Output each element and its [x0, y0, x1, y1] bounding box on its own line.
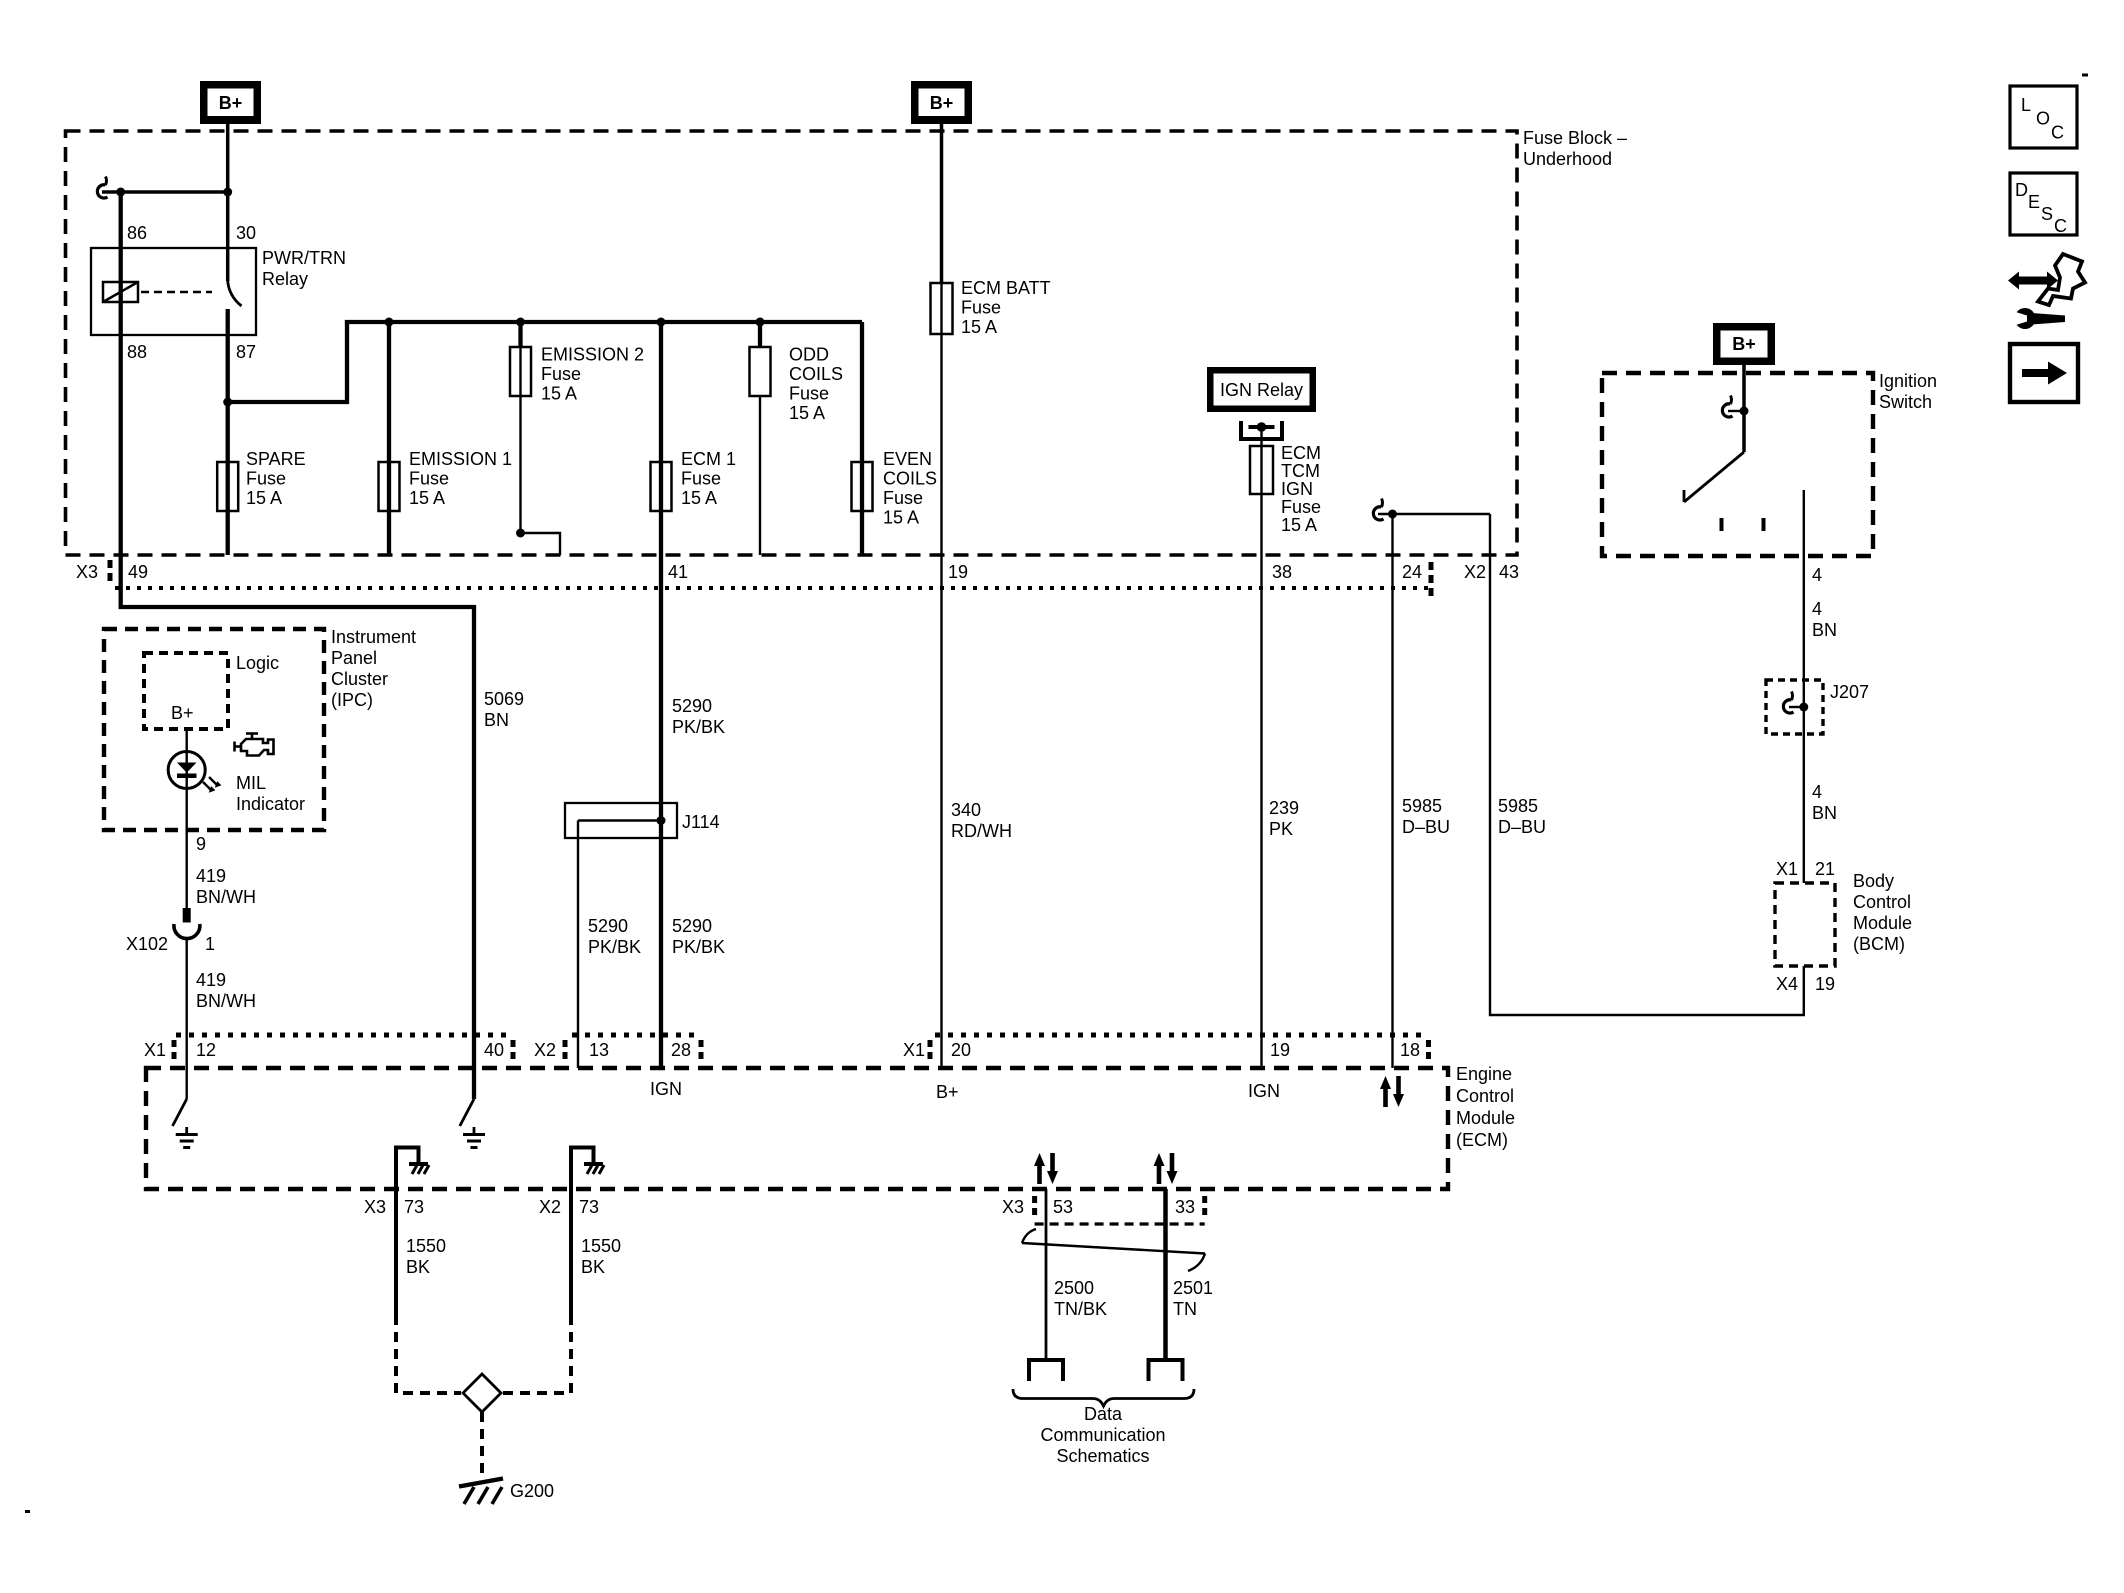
svg-text:Fuse: Fuse: [961, 298, 1001, 318]
svg-text:G200: G200: [510, 1481, 554, 1501]
svg-text:ECM 1: ECM 1: [681, 449, 736, 469]
svg-text:BN/WH: BN/WH: [196, 887, 256, 907]
svg-text:49: 49: [128, 562, 148, 582]
svg-text:5069: 5069: [484, 689, 524, 709]
svg-text:21: 21: [1815, 859, 1835, 879]
svg-text:38: 38: [1272, 562, 1292, 582]
svg-text:D–BU: D–BU: [1498, 817, 1546, 837]
svg-text:5985: 5985: [1402, 796, 1442, 816]
svg-text:5290: 5290: [672, 696, 712, 716]
inline connector X102 socket: [174, 924, 200, 939]
svg-text:239: 239: [1269, 798, 1299, 818]
svg-text:X3: X3: [364, 1197, 386, 1217]
svg-text:Logic: Logic: [236, 653, 279, 673]
svg-text:15 A: 15 A: [246, 488, 282, 508]
svg-text:RD/WH: RD/WH: [951, 821, 1012, 841]
wire: EMISSION 2 branch lower with jog: [521, 347, 561, 555]
wire: EMISSION 1 branch: [387, 322, 391, 555]
tiny page mark bottom left: [25, 1510, 30, 1513]
svg-text:D–BU: D–BU: [1402, 817, 1450, 837]
svg-text:73: 73: [579, 1197, 599, 1217]
svg-text:13: 13: [589, 1040, 609, 1060]
svg-text:BK: BK: [581, 1257, 605, 1277]
svg-text:15 A: 15 A: [541, 384, 577, 404]
twisted pair crossover: [1022, 1243, 1205, 1254]
svg-text:C: C: [2051, 123, 2064, 143]
svg-text:Fuse: Fuse: [883, 488, 923, 508]
connector hook in ignition switch: [1722, 396, 1732, 418]
svg-text:Schematics: Schematics: [1056, 1446, 1149, 1466]
svg-text:PWR/TRN: PWR/TRN: [262, 248, 346, 268]
fuse ECM TCM IGN 15 A: [1250, 446, 1273, 494]
svg-text:X3: X3: [76, 562, 98, 582]
wire: relay pin 87 down to splice: [226, 309, 230, 402]
wire: EVEN COILS branch: [860, 322, 864, 555]
svg-text:B+: B+: [1732, 334, 1756, 354]
fuse ECM 1 15 A: [651, 462, 672, 511]
wire: ECM 1 fuse branch down to ECM pin 28: [659, 322, 663, 1068]
splice pack diamond: [463, 1374, 501, 1412]
svg-text:PK: PK: [1269, 819, 1293, 839]
wire: ODD COILS branch upper: [758, 322, 762, 347]
relay PWR/TRN box: [91, 248, 256, 335]
wire: 2501 TN serial data: [1163, 1189, 1168, 1358]
serial data arrows at ECM pin 18: [1380, 1076, 1404, 1107]
inline connector X102 pin: [183, 908, 191, 923]
svg-text:2500: 2500: [1054, 1278, 1094, 1298]
svg-text:Data: Data: [1084, 1404, 1123, 1424]
wire: 2500 TN/BK serial data: [1045, 1189, 1048, 1358]
svg-text:Module: Module: [1853, 913, 1912, 933]
svg-text:15 A: 15 A: [1281, 515, 1317, 535]
connector hook in J207: [1783, 692, 1793, 714]
svg-text:Fuse: Fuse: [1281, 497, 1321, 517]
svg-text:B+: B+: [219, 93, 243, 113]
svg-text:15 A: 15 A: [789, 403, 825, 423]
MIL engine icon: [235, 734, 274, 756]
legend LOC box: [2010, 86, 2077, 148]
svg-text:BN: BN: [1812, 803, 1837, 823]
svg-text:X2: X2: [1464, 562, 1486, 582]
svg-text:87: 87: [236, 342, 256, 362]
svg-text:O: O: [2036, 109, 2050, 129]
data terminal left: [1029, 1360, 1063, 1381]
relay coil: [103, 282, 138, 302]
svg-text:Fuse: Fuse: [789, 384, 829, 404]
svg-text:Fuse: Fuse: [409, 469, 449, 489]
svg-text:88: 88: [127, 342, 147, 362]
svg-text:TN/BK: TN/BK: [1054, 1299, 1107, 1319]
ECM internal ground at pin 12: [176, 1127, 198, 1148]
junction dot J114: [657, 816, 666, 825]
svg-text:IGN Relay: IGN Relay: [1220, 380, 1303, 400]
fuse ECM BATT 15 A: [931, 283, 953, 334]
svg-text:Underhood: Underhood: [1523, 149, 1612, 169]
chassis ground symbol X2-73: [584, 1164, 604, 1174]
power symbol B+ (ignition switch): [1713, 323, 1775, 365]
svg-text:Relay: Relay: [262, 269, 308, 289]
svg-text:X1: X1: [903, 1040, 925, 1060]
svg-text:340: 340: [951, 800, 981, 820]
svg-text:Ignition: Ignition: [1879, 371, 1937, 391]
svg-text:IGN: IGN: [650, 1079, 682, 1099]
svg-text:TCM: TCM: [1281, 461, 1320, 481]
ECM data connector separators: [1032, 1196, 1037, 1218]
wire: splice to fuse bus riser: [228, 324, 347, 402]
ECM connector face dotted band X1: [176, 1033, 513, 1038]
svg-text:33: 33: [1175, 1197, 1195, 1217]
svg-text:15 A: 15 A: [961, 317, 997, 337]
ignition switch blade: [1684, 452, 1744, 502]
svg-text:SPARE: SPARE: [246, 449, 306, 469]
svg-text:Control: Control: [1853, 892, 1911, 912]
svg-text:Module: Module: [1456, 1108, 1515, 1128]
svg-text:BN: BN: [1812, 620, 1837, 640]
wire: B+ down to relay pin 30: [226, 124, 230, 281]
power symbol B+ (feed to ECM BATT fuse): [911, 81, 972, 124]
svg-text:15 A: 15 A: [409, 488, 445, 508]
svg-text:S: S: [2041, 204, 2053, 224]
svg-text:30: 30: [236, 223, 256, 243]
junction dot on B+ drop: [223, 188, 232, 197]
fuse ODD COILS 15 A: [750, 347, 771, 396]
ignition switch dashed box: [1602, 373, 1873, 556]
ECM pin 40 internal switch blade: [460, 1099, 474, 1126]
brace under data terminals: [1013, 1389, 1194, 1406]
svg-text:(ECM): (ECM): [1456, 1130, 1508, 1150]
svg-text:43: 43: [1499, 562, 1519, 582]
ECM data connector bottom dashed edge: [1035, 1222, 1205, 1225]
legend forward arrow box: [2010, 344, 2078, 402]
svg-text:E: E: [2028, 192, 2040, 212]
svg-text:(IPC): (IPC): [331, 690, 373, 710]
svg-text:2501: 2501: [1173, 1278, 1213, 1298]
dashed wire to G200: [480, 1412, 484, 1477]
junction dot bus EMISSION 2: [516, 318, 525, 327]
svg-text:X2: X2: [534, 1040, 556, 1060]
IGN relay output stub: [1241, 421, 1282, 439]
fuse EMISSION 1 15 A: [379, 462, 400, 511]
svg-text:X3: X3: [1002, 1197, 1024, 1217]
junction dot IGN feed split: [1388, 510, 1397, 519]
engine control module dashed box: [146, 1068, 1448, 1189]
svg-text:X1: X1: [1776, 859, 1798, 879]
svg-text:5290: 5290: [672, 916, 712, 936]
wire: ODD COILS branch lower: [759, 396, 761, 555]
wire: 5985 D-BU to ECM pin 18: [1391, 514, 1393, 1068]
chassis ground symbol X3-73: [409, 1164, 429, 1174]
wire: hook link in ignition switch: [1728, 410, 1744, 412]
svg-text:Instrument: Instrument: [331, 627, 416, 647]
junction dot bus ECM 1: [657, 318, 666, 327]
wire: ECM X2-73 ground 1550 BK: [569, 1189, 573, 1315]
svg-text:Panel: Panel: [331, 648, 377, 668]
ECM internal chassis ground elbow X3-73: [396, 1148, 419, 1190]
tiny page mark top right: [2082, 74, 2088, 77]
serial data arrows at ECM pin 33: [1154, 1153, 1178, 1184]
relay actuation dashed link: [141, 291, 212, 294]
svg-text:TN: TN: [1173, 1299, 1197, 1319]
svg-text:ECM: ECM: [1281, 443, 1321, 463]
junction dot IGN relay output: [1257, 422, 1267, 432]
wire: IGN feed link to X2-43 exit: [1378, 513, 1490, 515]
IPC logic dashed box: [144, 653, 228, 729]
svg-text:COILS: COILS: [883, 469, 937, 489]
wire: 5985 D-BU via X2-43 to BCM X4-19: [1490, 514, 1804, 1015]
connector X3 separator: [108, 560, 113, 586]
svg-text:1550: 1550: [581, 1236, 621, 1256]
body control module dashed box: [1775, 883, 1835, 966]
connector hook at coil feed: [97, 177, 107, 199]
ECM connector separators: [172, 1040, 177, 1063]
svg-text:BN: BN: [484, 710, 509, 730]
connector X2 separator: [1429, 562, 1434, 598]
svg-text:1: 1: [205, 934, 215, 954]
svg-text:Communication: Communication: [1040, 1425, 1165, 1445]
svg-text:Engine: Engine: [1456, 1064, 1512, 1084]
svg-text:L: L: [2021, 95, 2031, 115]
wire: fuse feed bus: [345, 320, 862, 324]
MIL indicator LED: [168, 752, 205, 789]
wire: J114 branch to ECM pin 13: [578, 821, 661, 1069]
svg-text:IGN: IGN: [1248, 1081, 1280, 1101]
svg-text:IGN: IGN: [1281, 479, 1313, 499]
svg-text:EMISSION 2: EMISSION 2: [541, 345, 644, 365]
svg-text:PK/BK: PK/BK: [672, 937, 725, 957]
svg-text:Indicator: Indicator: [236, 794, 305, 814]
svg-text:1550: 1550: [406, 1236, 446, 1256]
ground G200 chassis symbol: [459, 1479, 503, 1487]
svg-text:J207: J207: [1830, 682, 1869, 702]
svg-text:Body: Body: [1853, 871, 1894, 891]
wire: B+ into ignition switch: [1742, 365, 1746, 452]
wire: relay coil feed down through pin 86/88 exits X3 pin 49: [121, 192, 474, 1099]
svg-text:X2: X2: [539, 1197, 561, 1217]
svg-text:X1: X1: [144, 1040, 166, 1060]
svg-text:41: 41: [668, 562, 688, 582]
wire: logic to MIL LED to IPC pin 9: [185, 729, 187, 908]
wire: EMISSION 2 branch upper: [518, 322, 522, 347]
svg-text:4: 4: [1812, 782, 1822, 802]
svg-text:19: 19: [948, 562, 968, 582]
svg-text:53: 53: [1053, 1197, 1073, 1217]
fuse EMISSION 2 15 A: [510, 347, 531, 396]
svg-text:X4: X4: [1776, 974, 1798, 994]
svg-text:PK/BK: PK/BK: [672, 717, 725, 737]
svg-text:Cluster: Cluster: [331, 669, 388, 689]
instrument panel cluster dashed box: [104, 629, 324, 830]
ECM internal ground at pin 40: [463, 1127, 485, 1148]
svg-text:419: 419: [196, 866, 226, 886]
IGN Relay label box: [1207, 367, 1316, 412]
fuse SPARE 15 A: [217, 462, 238, 511]
svg-text:J114: J114: [682, 812, 720, 832]
ignition switch contact ticks: [1720, 518, 1724, 531]
wire: ignition switch pin 4 output: [1803, 490, 1805, 883]
junction dot at coil branch: [116, 188, 125, 197]
junction dot EMISSION 2 jog: [516, 529, 525, 538]
wire: hook link in J207: [1789, 706, 1804, 708]
wire: SPARE fuse branch: [226, 402, 230, 555]
junction dot in ignition switch: [1740, 407, 1749, 416]
junction dot at pin 87 splice: [223, 398, 232, 407]
wire: branch to relay coil pin 86: [102, 190, 228, 194]
svg-text:ECM BATT: ECM BATT: [961, 278, 1051, 298]
svg-text:BN/WH: BN/WH: [196, 991, 256, 1011]
ECM internal chassis ground elbow X2-73: [571, 1148, 594, 1190]
ECM connector face dotted band X2: [572, 1033, 700, 1038]
svg-text:28: 28: [671, 1040, 691, 1060]
wire: ECM X3-73 ground 1550 BK: [394, 1189, 398, 1315]
serial data arrows at ECM pin 53: [1034, 1153, 1058, 1184]
svg-text:B+: B+: [930, 93, 954, 113]
splice J114 box: [565, 803, 677, 838]
wire: ECM BATT feed B+ down to ECM pin 20: [940, 124, 944, 283]
junction dot in J207: [1799, 703, 1808, 712]
wire: IGN relay output to ECM pin 19: [1260, 427, 1262, 1068]
svg-text:BK: BK: [406, 1257, 430, 1277]
svg-text:Fuse: Fuse: [681, 469, 721, 489]
svg-text:C: C: [2054, 216, 2067, 236]
fuse block underhood: dashed enclosure: [66, 131, 1518, 555]
legend DESC box: [2010, 173, 2077, 235]
svg-text:X102: X102: [126, 934, 168, 954]
svg-text:EVEN: EVEN: [883, 449, 932, 469]
svg-text:(BCM): (BCM): [1853, 934, 1905, 954]
svg-text:18: 18: [1400, 1040, 1420, 1060]
svg-text:Fuse Block –: Fuse Block –: [1523, 128, 1627, 148]
svg-text:5290: 5290: [588, 916, 628, 936]
connector hook at IGN feed link: [1373, 499, 1383, 521]
svg-text:15 A: 15 A: [681, 488, 717, 508]
svg-text:24: 24: [1402, 562, 1422, 582]
svg-text:4: 4: [1812, 565, 1822, 585]
wire: X102 to ECM pin 12: [185, 938, 187, 1099]
svg-text:419: 419: [196, 970, 226, 990]
svg-text:PK/BK: PK/BK: [588, 937, 641, 957]
svg-text:Fuse: Fuse: [541, 364, 581, 384]
svg-text:86: 86: [127, 223, 147, 243]
svg-text:B+: B+: [171, 703, 194, 723]
legend schematic navigation icon: [2008, 272, 2058, 290]
data terminal right: [1149, 1360, 1183, 1381]
svg-text:MIL: MIL: [236, 773, 266, 793]
svg-text:Fuse: Fuse: [246, 469, 286, 489]
svg-text:15 A: 15 A: [883, 508, 919, 528]
fuse EVEN COILS 15 A: [852, 462, 873, 511]
svg-text:EMISSION 1: EMISSION 1: [409, 449, 512, 469]
svg-text:Switch: Switch: [1879, 392, 1932, 412]
splice J207 dashed box: [1766, 680, 1823, 734]
ECM connector face dotted band X1 right: [935, 1033, 1428, 1038]
ECM pin 12 internal switch blade: [173, 1099, 187, 1126]
svg-text:4: 4: [1812, 599, 1822, 619]
svg-text:D: D: [2015, 180, 2028, 200]
svg-text:5985: 5985: [1498, 796, 1538, 816]
svg-text:20: 20: [951, 1040, 971, 1060]
dashed ground run to splice pack: [396, 1315, 461, 1393]
svg-text:Control: Control: [1456, 1086, 1514, 1106]
junction dot bus ODD COILS: [756, 318, 765, 327]
svg-text:73: 73: [404, 1197, 424, 1217]
svg-text:ODD: ODD: [789, 345, 829, 365]
svg-text:19: 19: [1815, 974, 1835, 994]
svg-text:COILS: COILS: [789, 364, 843, 384]
svg-text:19: 19: [1270, 1040, 1290, 1060]
junction dot bus EMISSION 1: [385, 318, 394, 327]
svg-text:B+: B+: [936, 1082, 959, 1102]
relay switch blade 30-87: [228, 281, 242, 306]
svg-text:12: 12: [196, 1040, 216, 1060]
svg-text:9: 9: [196, 834, 206, 854]
power symbol B+ (feed to PWR/TRN relay): [200, 81, 261, 124]
fuse block connector face (dotted line): [115, 586, 1430, 590]
svg-text:40: 40: [484, 1040, 504, 1060]
